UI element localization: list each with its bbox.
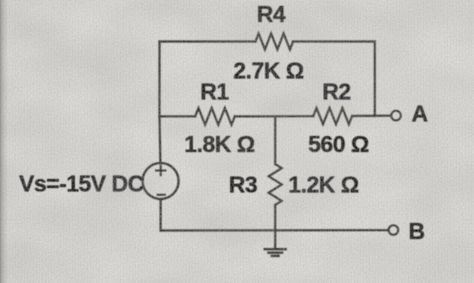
wire: left rail from middle wire down to source top bbox=[158, 116, 161, 163]
wire: left rail top (node to top wire) bbox=[158, 42, 160, 117]
voltage source - symbol bbox=[158, 194, 165, 196]
resistor R4 bbox=[256, 34, 294, 50]
wire: R3 bottom lead through bottom wire to ground bbox=[274, 205, 276, 248]
resistor R2 bbox=[313, 108, 352, 124]
resistor R1 bbox=[195, 108, 235, 125]
wire: bottom wire to node B terminal bbox=[161, 229, 388, 232]
node B terminal circle bbox=[389, 225, 399, 235]
resistor R3 bbox=[269, 164, 282, 205]
node A terminal circle bbox=[391, 111, 401, 121]
wire: right rail down to node A line bbox=[374, 42, 376, 117]
wire: middle wire left segment to R1 bbox=[160, 115, 196, 117]
voltage source Vs circle bbox=[143, 163, 179, 199]
ground symbol bbox=[265, 249, 286, 256]
wire: middle wire between R1 and R2 bbox=[235, 115, 313, 117]
wire: source bottom lead to bottom wire bbox=[160, 199, 162, 231]
wire: middle wire from R2 to node A terminal bbox=[352, 115, 391, 118]
wire: R3 branch from middle wire down to zigzag bbox=[274, 116, 276, 164]
voltage source + symbol bbox=[156, 166, 165, 175]
wire: top wire left segment to R4 bbox=[160, 40, 256, 42]
wire: top wire right segment from R4 to right rail bbox=[293, 40, 375, 42]
